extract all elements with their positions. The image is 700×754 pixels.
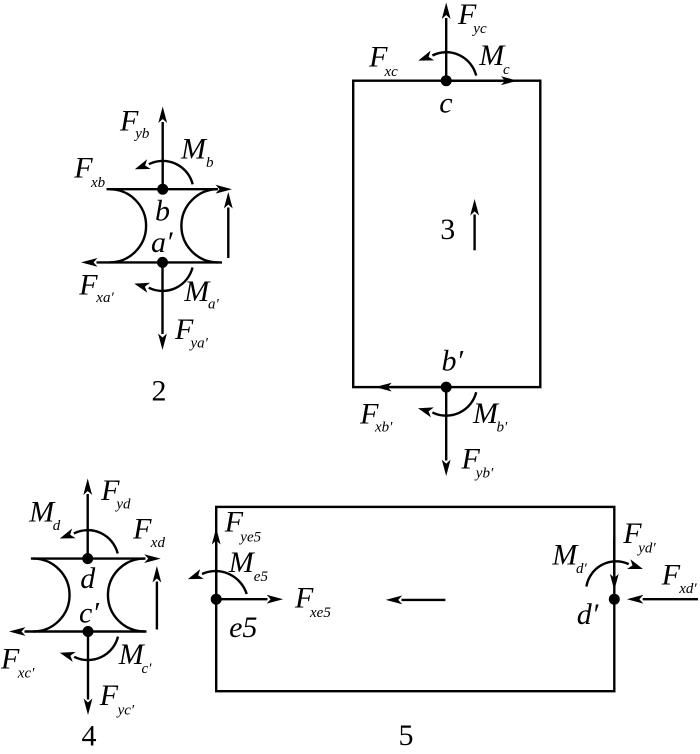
force F_yb arrow — [158, 107, 167, 190]
svg-text:yb′: yb′ — [474, 465, 494, 481]
svg-text:F: F — [661, 559, 681, 592]
link 2 top edge with force F_xb arrow — [107, 185, 233, 194]
svg-text:xd′: xd′ — [678, 581, 697, 597]
link 4 top edge with force F_xd arrow — [31, 554, 161, 563]
link 4 right arc — [108, 559, 144, 632]
link 2 left arc — [110, 189, 147, 262]
svg-text:F: F — [132, 512, 152, 545]
force F_ya' arrow — [158, 262, 167, 350]
force F_ye5 arrow — [212, 528, 221, 599]
svg-text:F: F — [99, 679, 119, 712]
svg-text:b′: b′ — [497, 419, 509, 435]
svg-text:2: 2 — [152, 375, 167, 408]
joint dot e5 — [211, 594, 222, 605]
force F_yb' arrow — [442, 387, 451, 476]
link 4 left arc — [33, 559, 69, 632]
joint dot c' — [83, 626, 94, 637]
link 5 rectangle — [216, 507, 614, 691]
svg-text:yd′: yd′ — [636, 540, 656, 556]
moment M_c arc — [417, 51, 477, 76]
svg-text:xd: xd — [150, 535, 166, 551]
svg-text:yd: yd — [114, 496, 131, 512]
svg-text:xc′: xc′ — [17, 666, 35, 682]
force F_xb' arrow — [375, 383, 446, 392]
force F_yc' arrow — [84, 632, 93, 716]
svg-text:a′: a′ — [151, 226, 173, 259]
link 2 side up arrow — [224, 192, 233, 258]
moment M_b' arc — [417, 392, 477, 417]
joint dot b — [157, 184, 168, 195]
joint dot d' — [609, 594, 620, 605]
joint dot b' — [441, 382, 452, 393]
svg-text:d: d — [80, 562, 96, 595]
force F_yd' arrow — [610, 540, 619, 590]
svg-text:M: M — [180, 133, 208, 166]
svg-text:ye5: ye5 — [238, 529, 261, 545]
joint dot a' — [157, 257, 168, 268]
svg-text:e5: e5 — [254, 569, 269, 585]
force F_xe5 arrow — [216, 595, 283, 604]
svg-text:yc: yc — [471, 21, 487, 37]
moment M_b arc — [133, 159, 193, 184]
moment M_d' arc — [586, 559, 644, 586]
svg-text:c′: c′ — [142, 661, 153, 677]
svg-text:xc: xc — [384, 64, 399, 80]
svg-text:c: c — [503, 62, 510, 78]
svg-text:d′: d′ — [577, 598, 599, 631]
svg-text:xe5: xe5 — [309, 605, 331, 621]
svg-text:xb: xb — [90, 175, 106, 191]
svg-text:yb: yb — [133, 126, 150, 142]
svg-text:xb′: xb′ — [374, 419, 393, 435]
force F_yc arrow — [442, 3, 451, 81]
svg-text:d: d — [53, 518, 61, 534]
svg-text:a′: a′ — [208, 297, 220, 313]
link 2 right arc — [181, 189, 218, 262]
moment M_d arc — [58, 528, 118, 553]
link 4 side up arrow — [153, 566, 162, 630]
svg-text:c′: c′ — [79, 597, 99, 630]
svg-text:d′: d′ — [576, 561, 588, 577]
joint dot d — [82, 553, 93, 564]
link 3 rectangle — [353, 81, 540, 387]
svg-text:5: 5 — [399, 719, 414, 752]
joint dot c — [441, 75, 452, 86]
moment M_c' arc — [58, 637, 118, 662]
force F_xd' arrow — [627, 595, 698, 604]
svg-text:yc′: yc′ — [116, 702, 135, 718]
link 4 bottom edge with force F_xc' arrow — [9, 627, 147, 636]
svg-text:ya′: ya′ — [189, 336, 209, 352]
svg-text:xa′: xa′ — [95, 290, 114, 306]
svg-text:M: M — [228, 546, 256, 579]
force F_yd arrow — [83, 479, 92, 559]
svg-text:b: b — [206, 155, 214, 171]
link 5 inner left arrow — [386, 596, 446, 605]
svg-text:b: b — [155, 195, 170, 228]
moment M_e5 arc — [186, 569, 247, 594]
svg-text:F: F — [78, 268, 98, 301]
moment M_a' arc — [133, 268, 193, 293]
link 2 bottom edge with force F_xa' arrow — [81, 258, 222, 267]
svg-text:e5: e5 — [229, 611, 257, 644]
svg-text:4: 4 — [82, 719, 97, 752]
link 3 inner up arrow — [470, 199, 479, 250]
svg-text:c: c — [439, 87, 452, 120]
svg-text:3: 3 — [440, 213, 455, 246]
force F_xc arrow — [446, 76, 517, 85]
svg-text:b′: b′ — [442, 344, 464, 377]
